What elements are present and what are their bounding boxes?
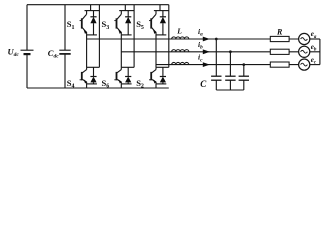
svg-text:S4: S4: [67, 78, 75, 90]
svg-text:L: L: [176, 26, 182, 35]
svg-text:S2: S2: [136, 78, 144, 90]
svg-text:eb: eb: [311, 43, 317, 53]
svg-text:S1: S1: [67, 19, 75, 31]
svg-text:C: C: [200, 79, 207, 89]
svg-text:Cdc: Cdc: [48, 48, 59, 60]
svg-text:S3: S3: [102, 19, 110, 31]
svg-text:R: R: [276, 27, 283, 36]
svg-text:ea: ea: [311, 30, 317, 40]
svg-text:S5: S5: [136, 19, 144, 31]
svg-text:S6: S6: [102, 78, 110, 90]
svg-text:ec: ec: [311, 56, 317, 66]
svg-text:Udc: Udc: [8, 47, 20, 59]
svg-text:ia: ia: [198, 27, 203, 38]
svg-text:ib: ib: [198, 40, 203, 51]
svg-text:ic: ic: [198, 53, 203, 64]
